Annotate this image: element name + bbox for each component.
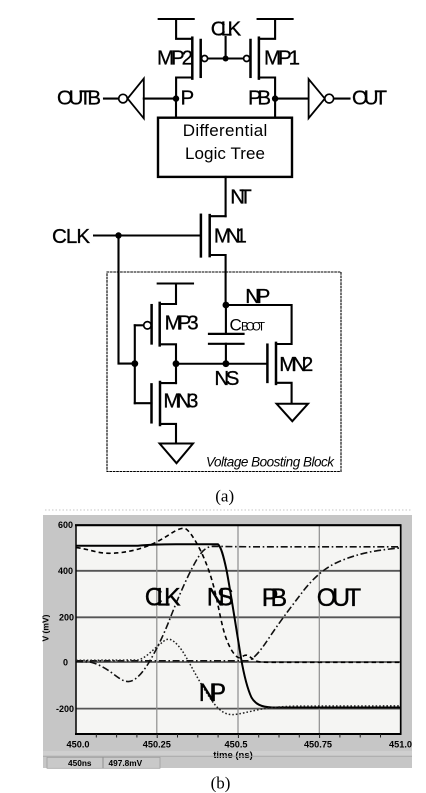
svg-text:450.0: 450.0 — [67, 739, 90, 749]
svg-text:NT: NT — [230, 185, 252, 208]
svg-text:NP: NP — [245, 285, 270, 308]
svg-text:400: 400 — [58, 566, 73, 576]
svg-text:OUTB: OUTB — [57, 87, 101, 110]
svg-text:BOOT: BOOT — [241, 321, 265, 333]
svg-text:0: 0 — [63, 657, 68, 667]
svg-text:MN3: MN3 — [163, 390, 198, 413]
svg-text:(a): (a) — [215, 487, 234, 506]
svg-text:MN2: MN2 — [279, 353, 313, 376]
svg-text:MP1: MP1 — [264, 47, 300, 70]
svg-text:V (mV): V (mV) — [41, 614, 51, 641]
svg-text:MP2: MP2 — [157, 47, 193, 70]
svg-text:OUT: OUT — [317, 584, 362, 612]
svg-text:OUT: OUT — [352, 87, 387, 110]
svg-text:CLK: CLK — [211, 18, 242, 41]
svg-text:Logic Tree: Logic Tree — [185, 144, 265, 163]
svg-text:CLK: CLK — [52, 225, 90, 248]
svg-text:CLK: CLK — [145, 584, 181, 612]
svg-text:497.8mV: 497.8mV — [109, 758, 143, 768]
svg-text:NP: NP — [199, 679, 227, 707]
svg-text:PB: PB — [248, 87, 271, 110]
svg-text:450.75: 450.75 — [304, 739, 332, 749]
svg-text:PB: PB — [262, 584, 288, 612]
svg-text:600: 600 — [58, 520, 73, 530]
svg-text:NS: NS — [214, 367, 239, 390]
svg-text:C: C — [230, 315, 242, 334]
svg-text:451.0: 451.0 — [389, 739, 412, 749]
svg-text:450.25: 450.25 — [143, 739, 171, 749]
svg-text:P: P — [181, 87, 195, 110]
svg-text:-200: -200 — [56, 704, 74, 714]
svg-text:MP3: MP3 — [165, 311, 199, 334]
svg-text:450.5: 450.5 — [225, 739, 248, 749]
svg-text:time (ns): time (ns) — [213, 750, 253, 761]
svg-text:200: 200 — [59, 613, 74, 623]
svg-text:450ns: 450ns — [68, 758, 92, 768]
svg-text:Differential: Differential — [183, 121, 268, 140]
svg-text:(b): (b) — [211, 773, 231, 792]
svg-text:MN1: MN1 — [214, 224, 247, 247]
svg-text:Voltage Boosting Block: Voltage Boosting Block — [206, 455, 335, 470]
svg-text:NS: NS — [207, 584, 234, 612]
